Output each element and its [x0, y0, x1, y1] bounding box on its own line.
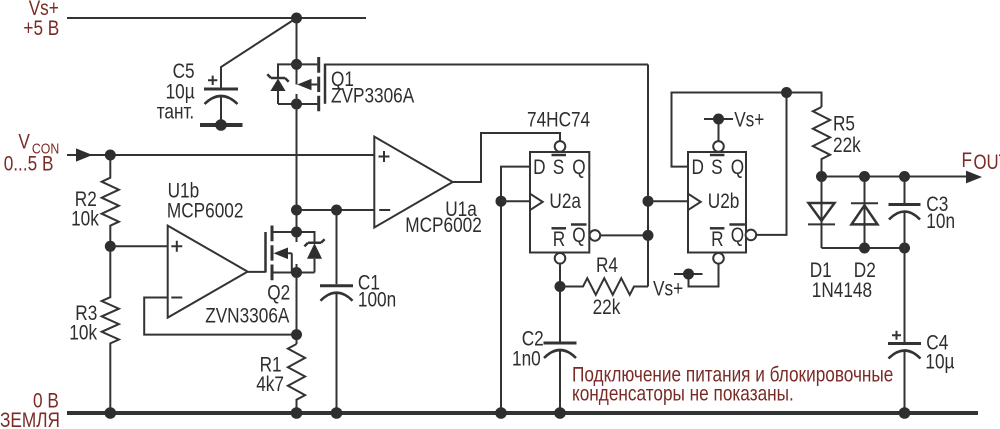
junction Q2 drain/body-diode	[291, 227, 302, 238]
svg-text:ЗЕМЛЯ: ЗЕМЛЯ	[0, 410, 60, 429]
node FOUT label	[962, 150, 1000, 175]
transistor Q2 ZVN3306A n-MOSFET	[205, 226, 296, 328]
op-amp U1b MCP6002	[167, 180, 248, 317]
svg-text:10n: 10n	[926, 210, 955, 233]
svg-text:S: S	[553, 157, 564, 180]
wire Q1 gate lead to feedback node	[325, 64, 648, 66]
wire C3 bottom to C4	[904, 248, 906, 342]
svg-text:D: D	[533, 157, 545, 180]
svg-text:Q: Q	[572, 224, 585, 247]
svg-text:1n0: 1n0	[512, 348, 541, 371]
wire Vs+ rail	[67, 17, 366, 19]
op-amp U1a MCP6002	[374, 137, 482, 238]
wire U2a D input	[501, 167, 530, 413]
wire U2b D loop from Q-bar	[672, 93, 787, 235]
junction R5/D1	[816, 171, 827, 182]
junction C3 bottom	[899, 243, 910, 254]
junction D2 top	[859, 171, 870, 182]
svg-text:R: R	[711, 229, 723, 252]
resistor R3 10k	[69, 246, 119, 413]
resistor R1 4k7	[256, 344, 305, 413]
junction feedback/Q-bar-a	[643, 230, 654, 241]
wire Q2 source down to R1	[296, 264, 298, 344]
svg-text:R5: R5	[833, 113, 855, 136]
pin U2a S-bar bubble	[555, 141, 566, 152]
svg-text:0...5 В: 0...5 В	[4, 153, 54, 176]
junction Q2 source/body-diode	[291, 267, 302, 278]
svg-text:D: D	[692, 157, 704, 180]
svg-text:MCP6002: MCP6002	[167, 200, 244, 223]
junction feedback/CLKb	[643, 196, 654, 207]
wire U2a clock input	[501, 200, 530, 202]
diode Q1 body (zener)	[267, 64, 296, 104]
wire timing node to U1a inverting input	[297, 209, 375, 211]
diode Q2 body (zener)	[297, 232, 325, 273]
svg-text:10k: 10k	[69, 322, 97, 345]
pin U2a R-bar bubble	[555, 253, 566, 264]
capacitor C2 1n0	[512, 328, 577, 413]
junction C3 top	[899, 171, 910, 182]
flip-flop U2a (74HC74 half)	[530, 152, 589, 253]
svg-text:ZVN3306A: ZVN3306A	[205, 305, 289, 328]
capacitor C4 10u electrolytic	[888, 331, 954, 413]
junction ground/C2	[554, 407, 566, 419]
svg-text:Vs+: Vs+	[734, 109, 764, 132]
diode D1 1N4148	[808, 177, 835, 283]
note text (power connections not shown)	[572, 364, 893, 406]
junction R4/C2/R-bar node	[555, 281, 566, 292]
label 1N4148	[812, 280, 872, 303]
wire divider to U1b noninverting input	[110, 245, 167, 247]
capacitor C1 100n	[320, 210, 396, 413]
wire output rail to FOUT	[822, 171, 983, 184]
pin U2b S-bar bubble	[713, 141, 724, 152]
pin U2b Q-bar bubble	[746, 230, 757, 241]
diode D2 1N4148	[851, 177, 878, 283]
junction Q1 source/body-diode	[291, 59, 302, 70]
pin U2a Q-bar bubble	[590, 230, 601, 241]
svg-text:U2a: U2a	[549, 191, 581, 214]
wire diode bottom rail	[822, 247, 905, 249]
junction Vs+/Q1	[291, 13, 302, 24]
label 74HC74	[527, 109, 590, 132]
junction ground/C1	[331, 407, 343, 419]
svg-text:10k: 10k	[71, 208, 99, 231]
svg-text:74HC74: 74HC74	[527, 109, 590, 132]
node 0V ground label	[0, 390, 60, 429]
wire U2a R-bar to timing node	[559, 264, 561, 342]
junction C1 top	[331, 205, 342, 216]
svg-text:конденсаторы не показаны.: конденсаторы не показаны.	[572, 383, 794, 406]
junction ground/R1	[291, 407, 303, 419]
resistor R4 22k	[560, 255, 648, 320]
svg-text:ZVP3306A: ZVP3306A	[331, 85, 414, 108]
wire U1a output to U2a set pin	[453, 133, 560, 182]
junction Q1 drain/body-diode	[291, 99, 302, 110]
capacitor C3 10n	[889, 177, 956, 249]
junction ground/R3	[105, 407, 117, 419]
svg-text:U2b: U2b	[708, 191, 740, 214]
junction ground/U2a D-CLK	[495, 407, 507, 419]
wire Q1 source vertical (Vs+ to Q1)	[296, 18, 298, 85]
junction D2 bottom	[859, 243, 870, 254]
flip-flop U2b (74HC74 half)	[688, 152, 746, 253]
wire ground rail	[67, 411, 978, 415]
svg-text:тант.: тант.	[157, 101, 195, 124]
pin U2b R-bar bubble	[713, 253, 724, 264]
junction ground/C4	[899, 407, 911, 419]
wire Q1 drain to Q2 drain	[296, 94, 298, 242]
svg-text:Q: Q	[731, 224, 744, 247]
wire U1b output to Q2 gate	[248, 271, 266, 273]
node Vs+ supply label	[23, 0, 59, 41]
junction feedback/Q2 source	[291, 329, 302, 340]
svg-text:10µ: 10µ	[925, 351, 954, 374]
svg-text:22k: 22k	[593, 297, 621, 320]
svg-text:OUT: OUT	[974, 151, 1000, 174]
wire feedback vertical (gate/Q-bar/CLKb/R4)	[647, 65, 649, 287]
power tap Vs+ at U2b R-bar	[653, 264, 719, 301]
junction R2/R3 divider to U1b	[105, 241, 116, 252]
svg-text:22k: 22k	[833, 135, 861, 158]
junction U2a D/CLK tie	[496, 196, 507, 207]
svg-text:1N4148: 1N4148	[812, 280, 872, 303]
svg-text:V: V	[18, 131, 30, 154]
wire VCON rail with input arrow	[67, 148, 374, 161]
svg-text:R4: R4	[596, 255, 618, 278]
capacitor C5 10u tantalum	[157, 61, 238, 124]
svg-text:4k7: 4k7	[256, 374, 284, 397]
svg-text:100n: 100n	[358, 289, 396, 312]
svg-text:S: S	[711, 157, 722, 180]
svg-text:Vs+: Vs+	[653, 278, 683, 301]
wire diagonal Vs+ to C5	[221, 18, 297, 89]
junction timing node Q1/Q2 drains	[291, 205, 302, 216]
node VCON input label	[4, 131, 60, 176]
wire U2b clock input	[648, 200, 688, 202]
svg-text:Q2: Q2	[267, 282, 290, 305]
svg-text:+5 В: +5 В	[23, 18, 59, 41]
svg-text:Q: Q	[731, 156, 744, 179]
svg-text:F: F	[962, 150, 973, 173]
transistor Q1 ZVP3306A p-MOSFET	[297, 57, 415, 111]
resistor R2 10k	[71, 155, 119, 246]
junction D-loop/output node	[781, 87, 792, 98]
ground local (C5)	[200, 119, 243, 131]
junction VCON/R2	[105, 150, 116, 161]
wire output node to R5	[787, 93, 822, 108]
wire U2a Q-bar to feedback line	[600, 234, 648, 236]
svg-text:MCP6002: MCP6002	[405, 214, 482, 237]
resistor R5 22k	[813, 107, 861, 177]
power tap Vs+ at U2b S-bar	[704, 109, 764, 141]
svg-text:R: R	[553, 229, 565, 252]
wire U1b feedback (inverting input to Q2 source)	[144, 298, 296, 335]
svg-text:Q: Q	[572, 156, 585, 179]
